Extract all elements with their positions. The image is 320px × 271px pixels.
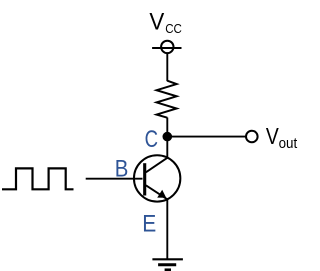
svg-text:E: E [142,211,156,238]
wire resistor to node C [166,118,168,137]
svg-text:C: C [145,126,158,153]
svg-text:V: V [266,123,279,149]
power terminal Vcc [152,41,181,53]
svg-text:CC: CC [165,21,182,36]
svg-text:V: V [149,8,164,35]
wire Vcc terminal to resistor [166,54,168,82]
square wave input signal [2,168,74,189]
terminal Vout [246,131,258,143]
svg-text:out: out [279,135,298,152]
emitter arrowhead [157,190,166,198]
collector lead [146,158,167,173]
label Vout [266,123,298,152]
wire node C to collector [166,137,168,158]
ground [152,259,183,270]
node C junction dot [163,132,173,142]
transistor Q1 [134,155,180,201]
emitter lead [146,185,167,199]
svg-text:B: B [115,156,129,183]
resistor R1 [157,81,177,118]
base bar [143,163,146,195]
wire emitter to ground [166,199,168,259]
wire input to base [86,178,143,180]
label Vcc [149,8,182,36]
wire node C to Vout terminal [167,136,245,138]
transistor body circle [134,155,180,201]
